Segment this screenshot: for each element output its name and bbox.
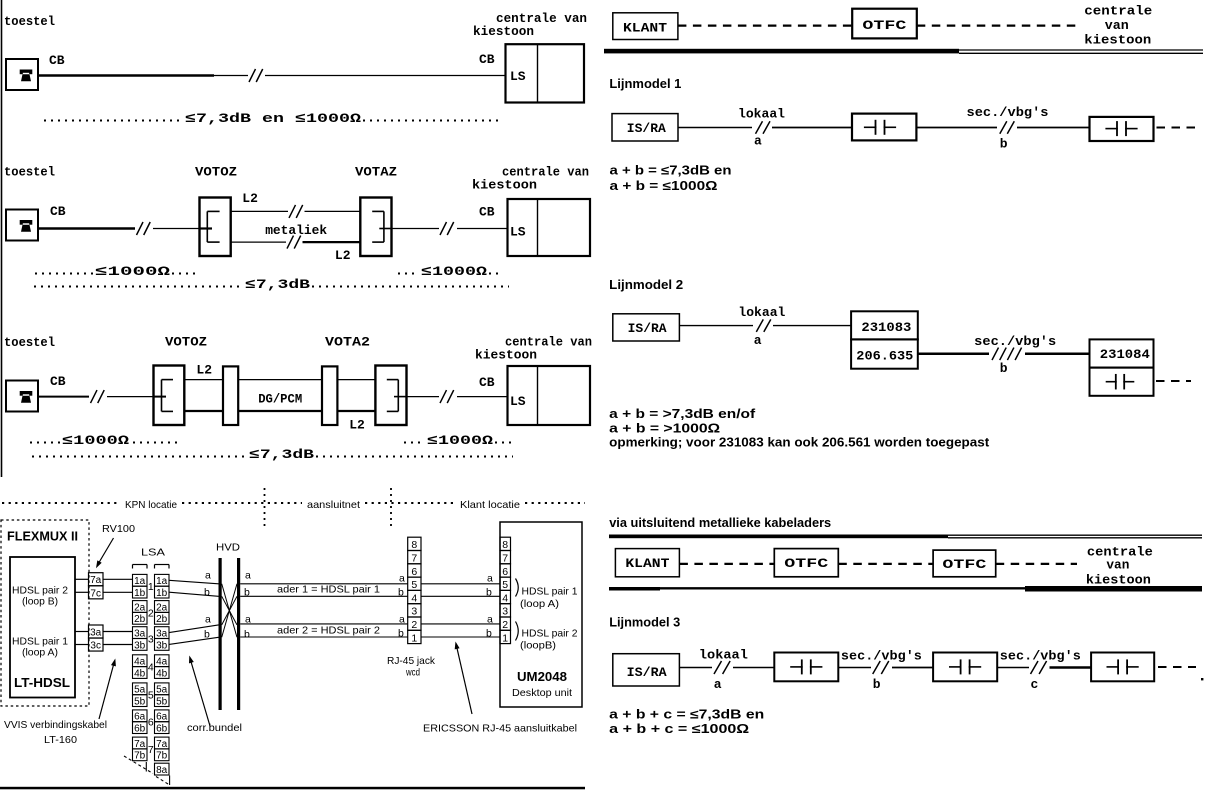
svg-text:7: 7: [502, 553, 508, 565]
svg-text:lokaal: lokaal: [738, 107, 785, 122]
svg-text:kiestoon: kiestoon: [1086, 573, 1151, 588]
svg-text:5b: 5b: [156, 697, 168, 708]
svg-text:CB: CB: [50, 204, 66, 219]
svg-text:CB: CB: [479, 375, 495, 390]
svg-text:a: a: [205, 614, 211, 626]
svg-text:sec./vbg's: sec./vbg's: [841, 649, 922, 664]
svg-text:VOTA2: VOTA2: [325, 335, 370, 350]
svg-text:1b: 1b: [156, 588, 168, 599]
svg-text:kiestoon: kiestoon: [473, 24, 534, 39]
svg-text:LS: LS: [510, 394, 526, 409]
svg-text:b: b: [873, 677, 881, 692]
svg-text:5b: 5b: [134, 697, 146, 708]
svg-text:2: 2: [502, 619, 508, 631]
svg-text:6: 6: [411, 566, 417, 578]
svg-text:LS: LS: [510, 69, 526, 84]
svg-text:(loopB): (loopB): [520, 640, 556, 652]
svg-text:3a: 3a: [156, 629, 168, 640]
svg-text:5: 5: [148, 690, 154, 702]
svg-text:HDSL pair 2: HDSL pair 2: [522, 628, 578, 640]
svg-text:metaliek: metaliek: [265, 223, 327, 238]
svg-text:2: 2: [411, 619, 417, 631]
svg-text:a + b + c = ≤7,3dB en: a + b + c = ≤7,3dB en: [609, 708, 764, 722]
svg-text:1a: 1a: [156, 576, 168, 587]
svg-text:7a: 7a: [134, 739, 146, 750]
svg-text:7b: 7b: [134, 751, 146, 762]
svg-text:≤1000Ω: ≤1000Ω: [95, 264, 170, 279]
svg-text:toestel: toestel: [4, 335, 55, 350]
svg-text:3b: 3b: [134, 640, 146, 651]
svg-text:VVIS verbindingskabel: VVIS verbindingskabel: [4, 719, 107, 731]
svg-text:3a: 3a: [134, 629, 146, 640]
svg-text:a: a: [487, 614, 493, 626]
svg-text:3: 3: [502, 606, 508, 618]
svg-text:(loop A): (loop A): [22, 647, 58, 659]
svg-text:Lijnmodel 1: Lijnmodel 1: [609, 76, 681, 91]
svg-text:CB: CB: [50, 374, 66, 389]
svg-text:Lijnmodel 3: Lijnmodel 3: [609, 615, 680, 630]
svg-text:≤1000Ω: ≤1000Ω: [427, 433, 493, 448]
svg-text:8a: 8a: [156, 765, 168, 776]
svg-text:231083: 231083: [861, 320, 911, 335]
svg-text:VOTAZ: VOTAZ: [355, 165, 397, 180]
svg-text:KLANT: KLANT: [623, 21, 667, 36]
svg-text:a: a: [399, 614, 405, 626]
svg-text:HVD: HVD: [216, 542, 240, 554]
svg-text:(loop A): (loop A): [520, 598, 559, 610]
svg-text:4b: 4b: [156, 668, 168, 679]
svg-text:≤1000Ω: ≤1000Ω: [62, 433, 129, 448]
svg-text:1b: 1b: [134, 588, 146, 599]
svg-text:≤7,3dB en ≤1000Ω: ≤7,3dB en ≤1000Ω: [185, 111, 361, 126]
svg-text:8: 8: [411, 539, 417, 551]
svg-text:CB: CB: [479, 52, 495, 67]
svg-text:b: b: [486, 628, 492, 640]
svg-text:KPN locatie: KPN locatie: [125, 499, 177, 511]
svg-text:Klant locatie: Klant locatie: [460, 499, 520, 511]
svg-text:4a: 4a: [156, 657, 168, 668]
svg-text:corr.bundel: corr.bundel: [187, 722, 242, 734]
svg-text:a: a: [399, 573, 405, 585]
svg-text:7c: 7c: [90, 588, 101, 599]
svg-text:aansluitnet: aansluitnet: [307, 499, 360, 511]
svg-text:LT-HDSL: LT-HDSL: [14, 675, 70, 690]
svg-text:6b: 6b: [134, 724, 146, 735]
svg-text:CB: CB: [49, 53, 65, 68]
svg-text:5a: 5a: [134, 685, 146, 696]
svg-text:IS/RA: IS/RA: [627, 665, 667, 680]
svg-text:ERICSSON RJ-45 aansluitkabel: ERICSSON RJ-45 aansluitkabel: [423, 723, 577, 735]
svg-text:FLEXMUX II: FLEXMUX II: [7, 529, 78, 544]
svg-text:OTFC: OTFC: [862, 18, 906, 33]
svg-text:≤7,3dB: ≤7,3dB: [249, 447, 314, 462]
svg-text:L2: L2: [335, 248, 351, 263]
svg-text:1: 1: [148, 581, 154, 593]
svg-text:ader 1 = HDSL pair 1: ader 1 = HDSL pair 1: [277, 584, 380, 596]
svg-text:6b: 6b: [156, 724, 168, 735]
svg-text:UM2048: UM2048: [517, 669, 567, 684]
svg-text:3: 3: [411, 606, 417, 618]
svg-text:van: van: [1106, 558, 1129, 573]
svg-text:b: b: [486, 587, 492, 599]
svg-text:LSA: LSA: [141, 547, 165, 559]
svg-text:OTFC: OTFC: [784, 556, 828, 571]
svg-text:van: van: [1105, 18, 1129, 33]
svg-text:1a: 1a: [134, 576, 146, 587]
svg-text:toestel: toestel: [4, 165, 55, 180]
svg-text:7: 7: [411, 553, 417, 565]
svg-text:a: a: [487, 573, 493, 585]
svg-text:kiestoon: kiestoon: [475, 348, 537, 363]
svg-text:≤7,3dB: ≤7,3dB: [245, 277, 310, 292]
svg-text:sec./vbg's: sec./vbg's: [974, 334, 1056, 349]
svg-text:a + b = ≤1000Ω: a + b = ≤1000Ω: [610, 179, 718, 193]
svg-text:6a: 6a: [156, 712, 168, 723]
svg-text:a + b = ≤7,3dB en: a + b = ≤7,3dB en: [610, 164, 732, 178]
svg-text:1: 1: [502, 632, 508, 644]
svg-text:L2: L2: [196, 363, 212, 378]
svg-text:kiestoon: kiestoon: [472, 178, 537, 193]
svg-text:sec./vbg's: sec./vbg's: [1000, 649, 1081, 664]
svg-text:7: 7: [148, 744, 154, 756]
svg-text:5a: 5a: [156, 685, 168, 696]
svg-text:4a: 4a: [134, 657, 146, 668]
svg-text:206.635: 206.635: [856, 349, 913, 364]
svg-text:4b: 4b: [134, 668, 146, 679]
svg-text:b: b: [204, 587, 210, 599]
svg-text:2b: 2b: [156, 614, 168, 625]
svg-text:a + b + c = ≤1000Ω: a + b + c = ≤1000Ω: [609, 722, 749, 736]
svg-text:3c: 3c: [90, 641, 101, 652]
svg-text:(loop B): (loop B): [22, 596, 58, 608]
svg-text:1: 1: [411, 632, 417, 644]
svg-text:wcd: wcd: [405, 667, 420, 679]
svg-text:a + b = >7,3dB en/of: a + b = >7,3dB en/of: [609, 407, 756, 421]
svg-text:kiestoon: kiestoon: [1084, 33, 1151, 48]
svg-text:3a: 3a: [90, 628, 102, 639]
svg-text:OTFC: OTFC: [942, 557, 986, 572]
svg-text:3b: 3b: [156, 640, 168, 651]
svg-text:a: a: [205, 570, 211, 582]
svg-text:6: 6: [502, 566, 508, 578]
svg-text:b: b: [398, 587, 404, 599]
svg-text:2b: 2b: [134, 614, 146, 625]
svg-text:b: b: [1000, 137, 1008, 152]
svg-text:RV100: RV100: [102, 523, 135, 535]
svg-text:lokaal: lokaal: [699, 648, 748, 663]
svg-text:CB: CB: [479, 205, 495, 220]
svg-text:HDSL pair 1: HDSL pair 1: [522, 586, 578, 598]
svg-text:6a: 6a: [134, 712, 146, 723]
svg-text:2: 2: [148, 607, 154, 619]
svg-text:opmerking; voor 231083 kan ook: opmerking; voor 231083 kan ook 206.561 w…: [609, 436, 990, 450]
svg-text:RJ-45 jack: RJ-45 jack: [387, 655, 436, 667]
svg-text:6: 6: [148, 717, 154, 729]
svg-text:centrale: centrale: [1084, 4, 1152, 19]
svg-text:2a: 2a: [134, 602, 146, 613]
svg-text:b: b: [398, 628, 404, 640]
svg-text:7a: 7a: [156, 739, 168, 750]
svg-text:LT-160: LT-160: [44, 734, 77, 746]
svg-text:a + b = >1000Ω: a + b = >1000Ω: [609, 422, 720, 436]
svg-text:VOTOZ: VOTOZ: [165, 335, 207, 350]
svg-text:ader 2 = HDSL pair 2: ader 2 = HDSL pair 2: [277, 625, 380, 637]
svg-text:L2: L2: [349, 418, 365, 433]
svg-text:a: a: [754, 134, 762, 149]
svg-text:sec./vbg's: sec./vbg's: [967, 105, 1049, 120]
svg-text:via uitsluitend metallieke kab: via uitsluitend metallieke kabeladers: [609, 515, 831, 530]
svg-text:3: 3: [148, 634, 154, 646]
svg-text:4: 4: [502, 592, 508, 604]
svg-text:lokaal: lokaal: [738, 305, 785, 320]
svg-text:Desktop unit: Desktop unit: [512, 687, 572, 699]
svg-text:231084: 231084: [1100, 347, 1150, 362]
svg-text:4: 4: [148, 662, 154, 674]
svg-text:a: a: [714, 677, 722, 692]
svg-text:Lijnmodel 2: Lijnmodel 2: [609, 277, 683, 292]
svg-text:LS: LS: [510, 225, 526, 240]
svg-text:2a: 2a: [156, 602, 168, 613]
svg-text:≤1000Ω: ≤1000Ω: [421, 264, 487, 279]
svg-text:b: b: [244, 629, 250, 641]
svg-text:a: a: [754, 333, 762, 348]
svg-text:a: a: [245, 570, 251, 582]
svg-text:L2: L2: [242, 191, 258, 206]
svg-text:c: c: [1031, 677, 1039, 692]
svg-text:IS/RA: IS/RA: [627, 121, 666, 136]
svg-text:DG/PCM: DG/PCM: [258, 392, 302, 407]
svg-text:b: b: [244, 587, 250, 599]
svg-text:a: a: [245, 614, 251, 626]
svg-text:toestel: toestel: [4, 14, 55, 29]
svg-text:8: 8: [502, 539, 508, 551]
svg-text:b: b: [204, 629, 210, 641]
svg-text:VOTOZ: VOTOZ: [195, 165, 237, 180]
svg-text:IS/RA: IS/RA: [628, 321, 667, 336]
svg-text:5: 5: [502, 579, 508, 591]
svg-text:5: 5: [411, 579, 417, 591]
svg-text:b: b: [1000, 361, 1008, 376]
svg-text:7b: 7b: [156, 751, 168, 762]
svg-text:7a: 7a: [90, 575, 102, 586]
svg-text:4: 4: [411, 592, 417, 604]
svg-text:KLANT: KLANT: [625, 556, 669, 571]
